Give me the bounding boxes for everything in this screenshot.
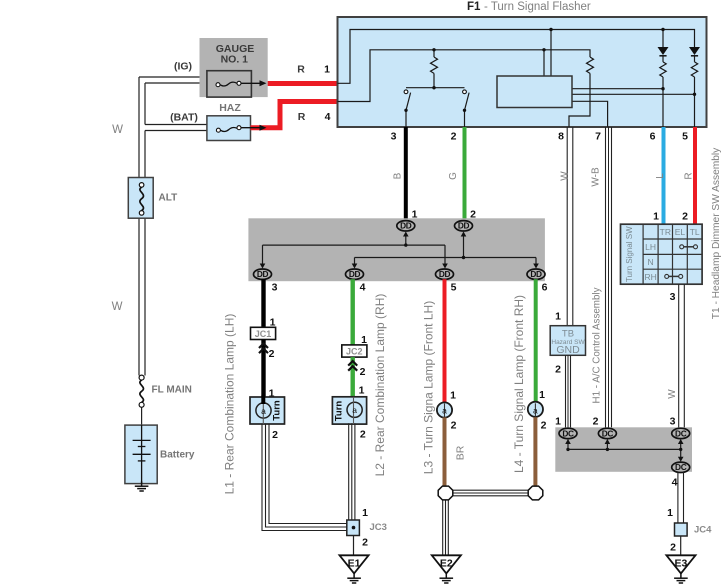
svg-text:2: 2 <box>360 366 366 378</box>
svg-text:2: 2 <box>362 537 368 549</box>
svg-text:W: W <box>560 171 571 181</box>
svg-text:TB: TB <box>562 329 574 340</box>
svg-text:1: 1 <box>361 334 367 346</box>
svg-text:FL MAIN: FL MAIN <box>152 385 192 396</box>
svg-text:W: W <box>667 389 678 399</box>
svg-text:R: R <box>297 64 305 76</box>
svg-text:E3: E3 <box>674 557 687 569</box>
svg-text:N: N <box>648 257 654 267</box>
svg-text:5: 5 <box>451 282 457 294</box>
svg-text:RH: RH <box>644 272 656 282</box>
svg-text:GND: GND <box>556 344 580 356</box>
svg-text:Battery: Battery <box>160 450 195 461</box>
svg-text:E2: E2 <box>440 557 453 569</box>
svg-text:JC4: JC4 <box>694 525 712 536</box>
svg-text:HAZ: HAZ <box>219 102 241 114</box>
svg-text:2: 2 <box>682 211 688 223</box>
svg-text:JC1: JC1 <box>255 329 272 339</box>
svg-text:4: 4 <box>672 477 678 489</box>
svg-text:3: 3 <box>391 131 397 143</box>
svg-text:2: 2 <box>670 542 676 554</box>
svg-text:a: a <box>352 405 357 415</box>
svg-text:6: 6 <box>650 131 656 143</box>
svg-text:2: 2 <box>593 416 599 428</box>
svg-text:1: 1 <box>539 389 545 401</box>
svg-text:TR: TR <box>660 227 671 237</box>
svg-text:E1: E1 <box>348 557 361 569</box>
svg-text:a: a <box>261 406 266 416</box>
svg-text:(BAT): (BAT) <box>170 112 198 124</box>
svg-text:8: 8 <box>558 131 564 143</box>
svg-text:R: R <box>684 172 695 179</box>
svg-text:Turn: Turn <box>334 401 345 422</box>
svg-text:1: 1 <box>555 311 561 323</box>
svg-text:LH: LH <box>645 242 656 252</box>
svg-text:a: a <box>442 406 447 416</box>
svg-text:a: a <box>533 406 538 416</box>
svg-text:T1 - Headlamp Dimmer SW Assemb: T1 - Headlamp Dimmer SW Assembly <box>711 147 722 319</box>
svg-text:7: 7 <box>595 131 601 143</box>
svg-text:Turn Signal SW: Turn Signal SW <box>625 226 634 282</box>
svg-text:3: 3 <box>670 291 676 303</box>
svg-text:2: 2 <box>272 429 278 441</box>
svg-text:G: G <box>448 172 459 180</box>
svg-text:3: 3 <box>670 416 676 428</box>
svg-text:1: 1 <box>359 385 365 397</box>
svg-text:H1 - A/C Control Assembly: H1 - A/C Control Assembly <box>592 287 603 403</box>
svg-text:2: 2 <box>360 429 366 441</box>
svg-text:BR: BR <box>455 445 467 460</box>
svg-text:EL: EL <box>675 227 686 237</box>
svg-text:1: 1 <box>555 416 561 428</box>
svg-text:JC2: JC2 <box>346 346 363 356</box>
svg-text:W: W <box>112 124 123 136</box>
svg-text:2: 2 <box>269 348 275 360</box>
svg-text:(IG): (IG) <box>174 61 192 73</box>
svg-text:1: 1 <box>362 507 368 519</box>
svg-text:1: 1 <box>270 317 276 329</box>
svg-text:W: W <box>112 301 123 313</box>
svg-text:2: 2 <box>555 364 561 376</box>
svg-text:B: B <box>393 172 404 179</box>
svg-text:NO. 1: NO. 1 <box>221 54 249 66</box>
svg-text:4: 4 <box>360 282 366 294</box>
svg-text:5: 5 <box>682 131 688 143</box>
svg-text:1: 1 <box>450 390 456 402</box>
svg-text:1: 1 <box>324 64 330 76</box>
svg-text:1: 1 <box>653 211 659 223</box>
svg-text:6: 6 <box>542 282 548 294</box>
svg-text:L2 - Rear Combination Lamp (RH: L2 - Rear Combination Lamp (RH) <box>373 294 387 477</box>
svg-text:F1: F1 <box>467 1 481 13</box>
svg-text:R: R <box>298 111 306 123</box>
svg-text:3: 3 <box>272 282 278 294</box>
svg-text:L: L <box>655 173 666 179</box>
svg-text:L3 - Turn Signa Lamp (Front LH: L3 - Turn Signa Lamp (Front LH) <box>422 301 436 474</box>
svg-text:2: 2 <box>470 209 476 221</box>
svg-text:L1 - Rear Combination Lamp (LH: L1 - Rear Combination Lamp (LH) <box>223 314 237 495</box>
svg-text:W-B: W-B <box>591 167 602 187</box>
svg-text:L4 - Turn Signal Lamp (Front R: L4 - Turn Signal Lamp (Front RH) <box>512 295 526 473</box>
svg-text:Turn: Turn <box>272 400 283 421</box>
svg-text:2: 2 <box>451 420 457 432</box>
svg-text:- Turn Signal Flasher: - Turn Signal Flasher <box>484 1 591 13</box>
svg-text:TL: TL <box>690 227 700 237</box>
svg-text:2: 2 <box>541 420 547 432</box>
svg-text:JC3: JC3 <box>370 522 387 533</box>
svg-text:4: 4 <box>325 111 331 123</box>
svg-text:ALT: ALT <box>159 193 178 204</box>
svg-text:1: 1 <box>667 507 673 519</box>
svg-text:2: 2 <box>451 131 457 143</box>
svg-text:1: 1 <box>412 209 418 221</box>
